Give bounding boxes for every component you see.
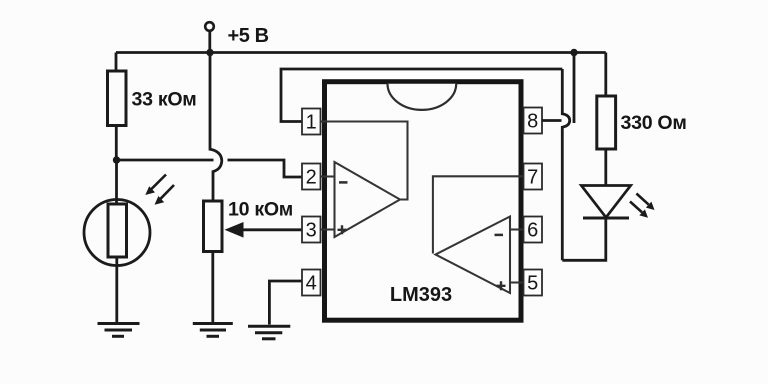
LED cathode bar: [583, 217, 629, 220]
wire pin 4 to ground: [269, 281, 302, 325]
op-amp U1A minus label: [339, 181, 348, 184]
wire node A to pin 2: [117, 159, 214, 162]
potentiometer 10 кОм: [204, 201, 223, 252]
svg-text:2: 2: [306, 167, 317, 189]
photoresistor element: [108, 204, 127, 257]
resistor 330 Ом: [597, 96, 616, 149]
wire rail to R3: [604, 53, 607, 97]
LED D1 triangle: [581, 186, 630, 218]
resistor 33 кОм: [108, 71, 127, 126]
wire LED cathode to pin 1 (top link): [281, 69, 562, 122]
wire +5V drop to pin 8: [573, 53, 576, 124]
op-amp U1B triangle: [436, 217, 511, 294]
svg-text:LM393: LM393: [390, 284, 452, 306]
wire pin 8 to +5V: [542, 119, 562, 122]
op-amp U1A plus label: [338, 225, 347, 234]
wire potentiometer to ground: [211, 252, 214, 323]
wire terminal drop: [208, 31, 211, 53]
svg-text:10 кОм: 10 кОм: [228, 199, 293, 221]
node junction dot left: [206, 49, 213, 56]
wire LED cathode vertical with hop over pin8 wire: [562, 69, 569, 260]
pin 2 box: [302, 164, 321, 190]
wire LED bottom link: [562, 218, 606, 261]
op-amp U1A inverting input stub: [321, 175, 335, 177]
pin 5 box: [524, 270, 543, 296]
ground GND1: [98, 324, 140, 337]
wire +5V to potentiometer with hop: [210, 53, 222, 202]
op-amp U1A output wire to pin 1: [321, 122, 408, 200]
terminal +5V: [205, 22, 214, 31]
svg-text:7: 7: [527, 167, 538, 189]
svg-text:6: 6: [527, 220, 538, 242]
op-amp U1B non-inverting input stub: [510, 281, 524, 283]
op-amp U1B output wire to pin 7: [433, 176, 524, 253]
wire rail to R1: [115, 53, 118, 72]
svg-text:4: 4: [306, 273, 317, 295]
ground GND3: [248, 326, 290, 339]
svg-text:33 кОм: 33 кОм: [132, 89, 197, 111]
pin 8 box: [524, 108, 543, 134]
pin 6 box: [524, 217, 543, 243]
photoresistor body circle: [84, 200, 150, 266]
wire node A to photoresistor: [115, 160, 118, 205]
wire photoresistor to ground: [115, 257, 118, 322]
ground GND2: [193, 324, 233, 337]
op-amp U1A non-inverting input stub: [321, 228, 335, 230]
svg-text:330 Ом: 330 Ом: [621, 112, 687, 134]
LED light arrow 2: [630, 202, 648, 218]
pin 7 box: [524, 164, 543, 190]
svg-text:1: 1: [306, 112, 317, 134]
photoresistor light arrow 1: [145, 175, 166, 196]
pin 1 box: [302, 109, 321, 135]
pin 4 box: [302, 270, 321, 296]
op-amp U1B plus label: [497, 281, 506, 290]
node junction dot right: [570, 49, 577, 56]
wire R3 to LED: [604, 149, 607, 186]
IC notch: [388, 84, 457, 110]
svg-text:3: 3: [306, 220, 317, 242]
wire R1 to node A: [115, 126, 118, 161]
svg-text:5: 5: [527, 273, 538, 295]
wire hop continuation to pin 2: [228, 160, 303, 177]
svg-text:8: 8: [527, 111, 538, 133]
op-amp U1B inverting input stub: [510, 228, 524, 230]
wire potentiometer wiper to pin 3: [243, 228, 302, 231]
op-amp U1B minus label: [495, 234, 504, 237]
LED light arrow 1: [636, 194, 654, 211]
photoresistor light arrow 2: [155, 185, 175, 205]
IC U1 LM393 body: [325, 82, 522, 321]
pin 3 box: [302, 217, 321, 243]
potentiometer wiper arrowhead: [225, 222, 244, 238]
svg-text:+5 В: +5 В: [228, 25, 269, 47]
wire +5V rail: [116, 51, 606, 54]
op-amp U1A triangle: [335, 162, 401, 237]
node A junction dot: [113, 156, 120, 163]
